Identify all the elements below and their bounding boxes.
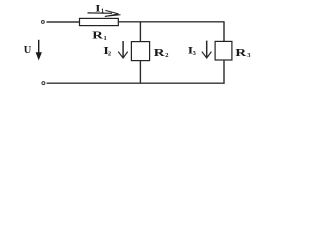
wire top-left (terminal to R1) bbox=[47, 21, 80, 23]
svg-text:2: 2 bbox=[108, 50, 111, 57]
resistor R1 bbox=[80, 18, 119, 25]
wire R3 bottom vertical bbox=[223, 60, 225, 84]
svg-text:R: R bbox=[154, 46, 166, 58]
svg-text:1: 1 bbox=[101, 8, 104, 15]
current arrow I3 (open head, down) bbox=[202, 41, 212, 58]
voltage arrow U (filled head, down) bbox=[36, 40, 42, 61]
wire top-right (R1 to node B) bbox=[118, 21, 224, 23]
resistor R2 bbox=[131, 42, 149, 61]
resistor R3 bbox=[215, 41, 232, 60]
wire bottom bbox=[47, 82, 225, 84]
svg-text:R: R bbox=[235, 46, 247, 58]
current arrow I1 bbox=[88, 10, 121, 16]
svg-text:2: 2 bbox=[165, 52, 168, 59]
svg-text:U: U bbox=[24, 45, 32, 56]
svg-text:3: 3 bbox=[193, 50, 197, 57]
svg-text:R: R bbox=[92, 29, 104, 41]
svg-text:1: 1 bbox=[104, 35, 107, 42]
terminal (bottom-left) bbox=[42, 82, 45, 85]
wire node A vertical (top wire down to R2) bbox=[139, 22, 141, 42]
current arrow I2 (open head, down) bbox=[118, 41, 128, 58]
wire node B vertical (top wire down to R3) bbox=[223, 22, 225, 42]
svg-text:3: 3 bbox=[247, 52, 251, 59]
terminal (top-left) bbox=[41, 20, 44, 23]
wire R2 bottom vertical bbox=[139, 61, 141, 84]
